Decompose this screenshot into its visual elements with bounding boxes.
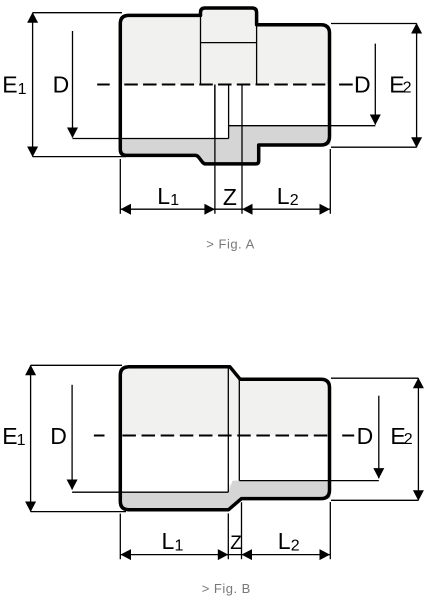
svg-text:E: E	[2, 423, 17, 449]
svg-text:L: L	[278, 528, 291, 554]
svg-text:D: D	[357, 423, 374, 449]
svg-text:1: 1	[170, 192, 179, 209]
svg-text:Z: Z	[223, 184, 237, 210]
svg-text:1: 1	[175, 537, 184, 554]
svg-text:> Fig. B: > Fig. B	[202, 581, 251, 596]
svg-text:2: 2	[290, 192, 299, 209]
svg-text:1: 1	[18, 81, 27, 98]
svg-text:L: L	[277, 183, 290, 209]
svg-text:2: 2	[404, 431, 413, 448]
svg-text:D: D	[50, 423, 67, 449]
svg-text:1: 1	[17, 432, 26, 449]
svg-text:D: D	[354, 72, 371, 98]
svg-text:Z: Z	[230, 533, 242, 554]
svg-text:L: L	[162, 528, 175, 554]
svg-text:L: L	[157, 183, 170, 209]
svg-text:> Fig. A: > Fig. A	[206, 236, 254, 251]
svg-text:2: 2	[403, 80, 412, 97]
svg-text:2: 2	[291, 537, 300, 554]
svg-text:E: E	[2, 71, 17, 97]
svg-text:D: D	[53, 71, 70, 97]
